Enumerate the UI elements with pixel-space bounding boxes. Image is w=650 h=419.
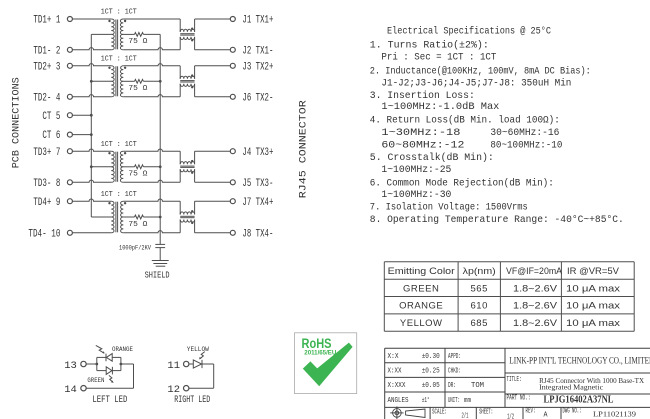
svg-text:J2 TX1-: J2 TX1-	[242, 45, 273, 57]
svg-text:CT 5: CT 5	[42, 111, 60, 123]
svg-text:UNIT:: UNIT:	[448, 397, 460, 405]
svg-text:14: 14	[64, 384, 77, 396]
svg-text:Pri : Sec = 1CT : 1CT: Pri : Sec = 1CT : 1CT	[381, 52, 496, 64]
svg-text:X:XX: X:XX	[388, 368, 403, 376]
svg-text:SHIELD: SHIELD	[145, 269, 170, 280]
svg-text:TD4- 10: TD4- 10	[28, 228, 60, 240]
svg-text:4. Return Loss(dB Min. load 10: 4. Return Loss(dB Min. load 100Ω):	[370, 115, 560, 127]
svg-text:75 Ω: 75 Ω	[128, 171, 148, 179]
svg-text:1.8~2.6V: 1.8~2.6V	[513, 318, 558, 329]
svg-text:5. Crosstalk(dB Min):: 5. Crosstalk(dB Min):	[370, 152, 494, 164]
svg-text:RoHS: RoHS	[302, 336, 332, 351]
svg-text:2/1: 2/1	[462, 413, 469, 419]
svg-text:J1 TX1+: J1 TX1+	[242, 15, 273, 27]
svg-text:3. Insertion Loss:: 3. Insertion Loss:	[370, 90, 475, 102]
svg-text:TOM: TOM	[471, 382, 484, 390]
svg-text:1~100MHz:-1.0dB Max: 1~100MHz:-1.0dB Max	[381, 101, 499, 113]
svg-text:1CT : 1CT: 1CT : 1CT	[101, 56, 137, 64]
svg-text:VF@IF=20mA: VF@IF=20mA	[506, 266, 563, 277]
svg-text:YELLOW: YELLOW	[187, 346, 209, 353]
svg-text:75 Ω: 75 Ω	[128, 38, 148, 46]
svg-text:12: 12	[167, 384, 180, 396]
svg-text:75 Ω: 75 Ω	[128, 85, 148, 93]
svg-text:ORANGE: ORANGE	[112, 346, 133, 353]
svg-text:LEFT LED: LEFT LED	[92, 395, 127, 406]
svg-text:PCB CONNECTIONS: PCB CONNECTIONS	[12, 77, 23, 168]
svg-text:J8 TX4-: J8 TX4-	[242, 228, 273, 240]
svg-text:J3 TX2+: J3 TX2+	[242, 61, 273, 73]
svg-text:DR:: DR:	[448, 382, 456, 390]
svg-text:80~100MHz:-10: 80~100MHz:-10	[490, 141, 562, 152]
svg-text:2. Inductance(@100KHz, 100mV,: 2. Inductance(@100KHz, 100mV, 8mA DC Bia…	[370, 66, 591, 78]
svg-text:A: A	[544, 411, 549, 419]
svg-text:J4 TX3+: J4 TX3+	[242, 147, 273, 159]
svg-text:ANGLES: ANGLES	[388, 397, 409, 405]
svg-text:Emitting Color: Emitting Color	[388, 266, 455, 277]
svg-text:RIGHT LED: RIGHT LED	[174, 395, 210, 406]
svg-text:1CT : 1CT: 1CT : 1CT	[101, 191, 137, 199]
svg-text:30~60MHz:-16: 30~60MHz:-16	[490, 128, 559, 139]
svg-text:60~80MHz:-12: 60~80MHz:-12	[381, 141, 464, 152]
svg-text:GREEN: GREEN	[403, 283, 439, 294]
svg-text:APPD:: APPD:	[448, 353, 461, 361]
svg-text:TD1+ 1: TD1+ 1	[33, 15, 60, 27]
svg-text:TD2- 4: TD2- 4	[33, 92, 60, 104]
svg-text:TD3- 8: TD3- 8	[33, 178, 60, 190]
svg-text:Integrated Magnetic: Integrated Magnetic	[539, 382, 604, 391]
svg-text:±0.25: ±0.25	[422, 368, 440, 376]
svg-text:1CT : 1CT: 1CT : 1CT	[101, 141, 137, 149]
svg-text:TITLE:: TITLE:	[507, 376, 522, 384]
svg-text:SHEET:: SHEET:	[479, 408, 493, 416]
svg-text:YELLOW: YELLOW	[400, 318, 443, 329]
svg-text:λp(nm): λp(nm)	[463, 266, 496, 277]
svg-text:1000pF/2KV: 1000pF/2KV	[119, 244, 151, 251]
svg-text:J1-J2;J3-J6;J4-J5;J7-J8: 350uH: J1-J2;J3-J6;J4-J5;J7-J8: 350uH Min	[381, 77, 571, 89]
svg-text:±0.30: ±0.30	[422, 353, 440, 361]
svg-text:1~100MHz:-25: 1~100MHz:-25	[381, 165, 451, 176]
svg-text:ORANGE: ORANGE	[399, 301, 443, 312]
svg-text:LP11021139: LP11021139	[593, 410, 636, 419]
svg-text:685: 685	[471, 318, 488, 329]
svg-text:11: 11	[167, 360, 180, 372]
svg-text:10 μA max: 10 μA max	[566, 301, 620, 312]
svg-text:±1°: ±1°	[422, 396, 430, 405]
svg-text:±0.05: ±0.05	[422, 382, 440, 390]
svg-text:CT 6: CT 6	[42, 130, 60, 142]
svg-text:GREEN: GREEN	[87, 377, 104, 384]
svg-text:REV:: REV:	[526, 408, 536, 416]
svg-text:1/2: 1/2	[507, 413, 514, 419]
svg-text:PART NO.:: PART NO.:	[507, 395, 531, 403]
svg-text:SCALE:: SCALE:	[432, 408, 447, 416]
svg-text:13: 13	[64, 360, 77, 372]
svg-text:X:X: X:X	[388, 353, 400, 361]
svg-text:10 μA max: 10 μA max	[566, 283, 620, 294]
svg-text:J5 TX3-: J5 TX3-	[242, 178, 273, 190]
svg-text:1.8~2.6V: 1.8~2.6V	[513, 283, 558, 294]
svg-text:CHKD:: CHKD:	[448, 368, 461, 376]
svg-text:IR @VR=5V: IR @VR=5V	[567, 266, 620, 277]
svg-text:TD4+ 9: TD4+ 9	[33, 197, 60, 209]
svg-text:6. Common Mode Rejection(dB Mi: 6. Common Mode Rejection(dB Min):	[370, 178, 554, 190]
svg-text:mm: mm	[464, 397, 471, 405]
svg-text:1CT : 1CT: 1CT : 1CT	[101, 9, 137, 17]
svg-text:LINK-PP INT'L TECHNOLOGY CO.,: LINK-PP INT'L TECHNOLOGY CO., LIMITED	[509, 356, 650, 366]
svg-text:TD1- 2: TD1- 2	[33, 45, 60, 57]
svg-text:DWG NO.:: DWG NO.:	[563, 408, 582, 416]
svg-text:Electrical Specifications @ 25: Electrical Specifications @ 25°C	[387, 26, 551, 38]
svg-text:7. Isolation Voltage: 1500Vrms: 7. Isolation Voltage: 1500Vrms	[370, 202, 528, 214]
svg-text:LPJG16402A37NL: LPJG16402A37NL	[544, 395, 614, 406]
svg-text:1~100MHz:-30: 1~100MHz:-30	[381, 190, 451, 201]
svg-text:10 μA max: 10 μA max	[566, 318, 620, 329]
svg-text:RJ45 CONNECTOR: RJ45 CONNECTOR	[298, 100, 309, 198]
svg-text:8. Operating Temperature Range: 8. Operating Temperature Range: -40°C~+8…	[370, 214, 624, 226]
svg-text:2011/65/EU: 2011/65/EU	[304, 350, 336, 356]
svg-text:J6 TX2-: J6 TX2-	[242, 92, 273, 104]
svg-text:X:XXX: X:XXX	[388, 382, 407, 390]
svg-text:1. Turns Ratio(±2%):: 1. Turns Ratio(±2%):	[370, 40, 489, 52]
svg-text:TD3+ 7: TD3+ 7	[33, 147, 60, 159]
svg-text:565: 565	[471, 283, 488, 294]
svg-text:1~30MHz:-18: 1~30MHz:-18	[381, 128, 460, 139]
svg-text:TD2+ 3: TD2+ 3	[33, 61, 60, 73]
svg-text:1.8~2.6V: 1.8~2.6V	[513, 301, 558, 312]
svg-text:610: 610	[471, 301, 488, 312]
svg-text:J7 TX4+: J7 TX4+	[242, 197, 273, 209]
svg-text:75 Ω: 75 Ω	[128, 221, 148, 229]
